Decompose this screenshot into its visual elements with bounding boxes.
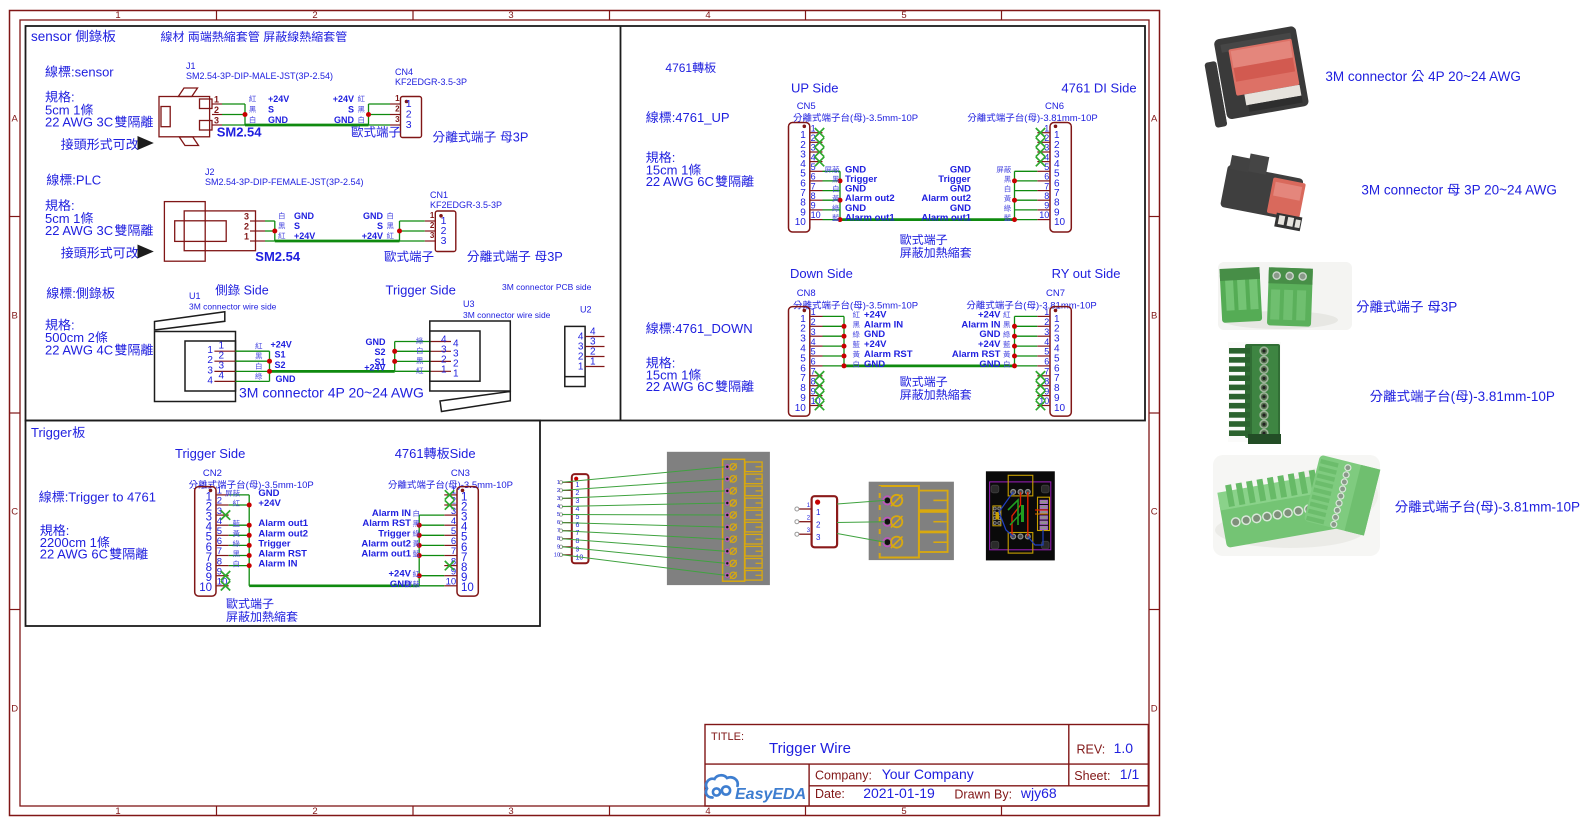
svg-text:)-3.81mm-10P: )-3.81mm-10P bbox=[1469, 389, 1555, 404]
svg-text::sensor: :sensor bbox=[71, 64, 114, 79]
no-connect marks CN6 pins 1-4 bbox=[1036, 128, 1045, 166]
svg-text:2: 2 bbox=[312, 10, 317, 21]
svg-text:SM2.54-3P-DIP-FEMALE-JST(3P-2.: SM2.54-3P-DIP-FEMALE-JST(3P-2.54) bbox=[205, 177, 364, 187]
svg-text:SM2.54-3P-DIP-MALE-JST(3P-2.54: SM2.54-3P-DIP-MALE-JST(3P-2.54) bbox=[186, 71, 333, 81]
label celu Side bbox=[215, 284, 268, 298]
svg-text:Side: Side bbox=[240, 284, 269, 298]
svg-text:3M connector: 3M connector bbox=[1325, 69, 1411, 84]
svg-text::PLC: :PLC bbox=[72, 173, 101, 188]
gray footprint image 10P bbox=[667, 452, 770, 585]
svg-text:4761 DI Side: 4761 DI Side bbox=[1061, 81, 1136, 96]
svg-text:6: 6 bbox=[811, 357, 816, 367]
svg-text:10: 10 bbox=[795, 403, 807, 414]
no-connect marks CN8 pins 7-10 bbox=[815, 371, 824, 410]
svg-text:3M connector wire side: 3M connector wire side bbox=[463, 310, 551, 320]
svg-text:CN2: CN2 bbox=[203, 468, 222, 479]
svg-text:2: 2 bbox=[395, 105, 400, 114]
junction J2 side bbox=[272, 229, 277, 234]
svg-text:1: 1 bbox=[590, 357, 596, 368]
svg-text:9: 9 bbox=[1044, 201, 1049, 211]
svg-text:4761: 4761 bbox=[665, 61, 692, 75]
wire labels CN5 side bbox=[825, 164, 896, 223]
svg-text:S: S bbox=[348, 105, 354, 115]
connector U3 designator bbox=[463, 299, 551, 320]
caption terminal 10P tall bbox=[1370, 389, 1555, 404]
wire color labels CN1 side bbox=[362, 211, 394, 241]
svg-text:+24V: +24V bbox=[333, 94, 354, 104]
svg-text:1: 1 bbox=[244, 232, 249, 242]
svg-text:3: 3 bbox=[430, 231, 435, 240]
label RY out Side bbox=[1052, 266, 1121, 281]
svg-text:4761: 4761 bbox=[395, 446, 424, 461]
svg-text:3M connector wire side: 3M connector wire side bbox=[189, 302, 277, 312]
svg-text:8: 8 bbox=[1044, 191, 1049, 201]
junction U1 side S1 bbox=[267, 359, 272, 364]
svg-text:(: ( bbox=[1024, 113, 1028, 124]
svg-text:7: 7 bbox=[811, 181, 816, 191]
junctions CN7 bus bbox=[1012, 324, 1017, 369]
svg-text:8: 8 bbox=[576, 538, 580, 545]
connector CN6 designator bbox=[968, 101, 1098, 124]
label SM2.54 row1 bbox=[217, 125, 263, 140]
svg-text:(: ( bbox=[1451, 389, 1456, 404]
wire U1 to U3 cable bbox=[235, 342, 431, 382]
svg-text:22 AWG 4C: 22 AWG 4C bbox=[45, 343, 113, 358]
svg-text:1: 1 bbox=[453, 368, 459, 379]
svg-text:3M connector PCB side: 3M connector PCB side bbox=[502, 282, 592, 292]
svg-text:2: 2 bbox=[1044, 317, 1049, 327]
svg-text:Sheet:: Sheet: bbox=[1074, 769, 1110, 783]
svg-text:5: 5 bbox=[557, 512, 560, 518]
svg-text:UP Side: UP Side bbox=[791, 81, 838, 96]
label wire name Trigger to 4761 bbox=[39, 490, 156, 505]
svg-text:1: 1 bbox=[807, 503, 811, 509]
svg-text:2021-01-19: 2021-01-19 bbox=[863, 785, 935, 801]
svg-text:3P: 3P bbox=[513, 130, 529, 145]
label wire name PLC bbox=[47, 173, 101, 188]
svg-text:1: 1 bbox=[430, 211, 435, 220]
svg-text:J1: J1 bbox=[186, 61, 196, 71]
svg-text:2: 2 bbox=[214, 105, 219, 115]
label Trigger board title bbox=[31, 425, 85, 440]
svg-text:+24V: +24V bbox=[271, 340, 292, 350]
svg-text:A: A bbox=[12, 114, 19, 125]
connector CN7 symbol bbox=[1037, 307, 1071, 417]
svg-text:GND: GND bbox=[294, 211, 315, 221]
svg-text:2: 2 bbox=[244, 222, 249, 232]
svg-text:Side: Side bbox=[450, 446, 476, 461]
connector U2 symbol bbox=[565, 326, 605, 386]
svg-text:1.0: 1.0 bbox=[1114, 740, 1134, 756]
connector CN8 designator bbox=[793, 288, 918, 312]
label 4761 DI Side bbox=[1061, 81, 1136, 96]
label 3M connector 4P bbox=[239, 385, 424, 401]
label connector-changeable note row1 bbox=[61, 136, 154, 150]
no-connect marks CN7 pins 7-10 bbox=[1036, 371, 1045, 410]
svg-text:1: 1 bbox=[811, 307, 816, 317]
label spec row2 bbox=[45, 198, 153, 238]
label euro terminal UP bbox=[900, 234, 971, 258]
caption terminal 10P pair bbox=[1395, 500, 1580, 515]
connector CN4 symbol bbox=[390, 94, 422, 138]
junction CN1 side bbox=[397, 229, 402, 234]
svg-text:SM2.54: SM2.54 bbox=[255, 249, 301, 264]
svg-text:Trigger Side: Trigger Side bbox=[386, 283, 456, 298]
connector CN7 designator bbox=[967, 288, 1097, 312]
svg-text:10: 10 bbox=[1054, 403, 1066, 414]
svg-text:TITLE:: TITLE: bbox=[711, 731, 744, 743]
svg-text:10: 10 bbox=[554, 552, 560, 558]
svg-text:6: 6 bbox=[1044, 172, 1049, 182]
svg-text:D: D bbox=[1151, 704, 1158, 715]
wire color labels J2 side bbox=[278, 211, 315, 241]
svg-text:)-3.81mm-10P: )-3.81mm-10P bbox=[1494, 500, 1580, 515]
label spec row3 bbox=[45, 318, 153, 358]
svg-text:4: 4 bbox=[576, 506, 580, 513]
svg-text:10: 10 bbox=[1054, 217, 1066, 228]
Trigger board section box bbox=[26, 421, 541, 627]
junction U1 side S2 bbox=[267, 369, 272, 374]
svg-text:6: 6 bbox=[557, 520, 560, 526]
svg-text:3: 3 bbox=[807, 528, 811, 534]
svg-text:4: 4 bbox=[219, 371, 225, 382]
label euro terminal DOWN bbox=[900, 376, 971, 400]
svg-text:22 AWG 3C: 22 AWG 3C bbox=[45, 115, 113, 130]
svg-text:CN3: CN3 bbox=[451, 468, 470, 479]
svg-text:5: 5 bbox=[811, 347, 816, 357]
svg-text:5: 5 bbox=[1044, 162, 1049, 172]
no-connect marks CN2 pins 3 9 10 bbox=[221, 510, 230, 590]
label Trigger Side row3 bbox=[386, 283, 456, 298]
svg-text:Alarm out1: Alarm out1 bbox=[361, 549, 411, 560]
svg-text:2: 2 bbox=[557, 488, 560, 494]
svg-text:U1: U1 bbox=[189, 291, 201, 301]
svg-text:S: S bbox=[377, 221, 383, 231]
label wire name 4761_UP bbox=[646, 110, 729, 125]
connector U3 symbol bbox=[430, 321, 511, 412]
connector CN8 symbol bbox=[789, 307, 823, 417]
connector U1 designator bbox=[189, 291, 277, 312]
svg-text:U3: U3 bbox=[463, 299, 475, 309]
svg-text:4: 4 bbox=[207, 375, 213, 386]
svg-text:2: 2 bbox=[312, 806, 317, 817]
svg-text:7: 7 bbox=[557, 528, 560, 534]
svg-text:+24V: +24V bbox=[294, 231, 315, 241]
photo terminal 10P pair bbox=[1213, 455, 1380, 556]
svg-text:CN8: CN8 bbox=[797, 288, 816, 299]
svg-text:2: 2 bbox=[430, 221, 435, 230]
wire CN8 to CN7 cable DOWN bbox=[823, 316, 1038, 366]
svg-text:RY out Side: RY out Side bbox=[1052, 266, 1121, 281]
svg-text:GND: GND bbox=[334, 115, 355, 125]
svg-text:5: 5 bbox=[1044, 347, 1049, 357]
svg-text:3P 20~24 AWG: 3P 20~24 AWG bbox=[1460, 183, 1556, 198]
svg-text:2: 2 bbox=[811, 317, 816, 327]
svg-text:3M connector: 3M connector bbox=[1361, 183, 1447, 198]
svg-text:2: 2 bbox=[807, 516, 811, 522]
label euro terminal trigger bbox=[226, 598, 297, 622]
junctions CN8 bus bbox=[842, 324, 847, 369]
svg-text:9: 9 bbox=[811, 201, 816, 211]
caption terminal 3P bbox=[1356, 300, 1457, 315]
svg-text:4: 4 bbox=[811, 337, 816, 347]
svg-text:2: 2 bbox=[576, 490, 580, 497]
svg-text:B: B bbox=[12, 311, 18, 322]
svg-text:7: 7 bbox=[1044, 181, 1049, 191]
svg-text:KF2EDGR-3.5-3P: KF2EDGR-3.5-3P bbox=[430, 200, 502, 210]
svg-text:Trigger Wire: Trigger Wire bbox=[769, 740, 851, 757]
svg-text:(: ( bbox=[850, 301, 854, 312]
label UP Side bbox=[791, 81, 838, 96]
svg-text:5: 5 bbox=[901, 10, 906, 21]
svg-text:10: 10 bbox=[461, 582, 474, 594]
4761 adapter section divider bbox=[620, 26, 622, 421]
svg-text:1: 1 bbox=[578, 362, 584, 373]
svg-text:CN1: CN1 bbox=[430, 190, 448, 200]
label wire name sensor bbox=[45, 64, 114, 79]
photo terminal 3P pair bbox=[1218, 262, 1352, 330]
connector CN6 symbol bbox=[1037, 123, 1071, 233]
svg-text:1/1: 1/1 bbox=[1120, 766, 1140, 782]
svg-text:(: ( bbox=[1023, 301, 1027, 312]
svg-text:B: B bbox=[1151, 311, 1157, 322]
svg-text:EasyEDA: EasyEDA bbox=[735, 786, 806, 803]
label 4761 adapter Side bbox=[395, 446, 476, 461]
gray footprint image 3P bbox=[869, 482, 954, 560]
svg-text:sensor: sensor bbox=[31, 29, 75, 44]
svg-text:1: 1 bbox=[214, 95, 219, 105]
svg-text:S: S bbox=[294, 221, 300, 231]
svg-text:+24V: +24V bbox=[364, 362, 385, 372]
junctions CN5 bus bbox=[838, 178, 843, 222]
svg-text::Trigger to 4761: :Trigger to 4761 bbox=[65, 490, 156, 505]
svg-text:3: 3 bbox=[244, 212, 249, 222]
svg-text:GND: GND bbox=[864, 359, 885, 370]
mini connector 10P symbol bbox=[554, 474, 589, 563]
connector J1 designator bbox=[186, 61, 333, 81]
svg-text:REV:: REV: bbox=[1077, 743, 1106, 757]
wire labels CN7 side bbox=[952, 309, 1010, 370]
junction CN4 side bbox=[366, 112, 371, 117]
svg-text:C: C bbox=[1151, 507, 1158, 518]
svg-text:)-3.5mm-10P: )-3.5mm-10P bbox=[458, 480, 513, 491]
connector U1 symbol bbox=[155, 312, 236, 402]
caption 3M connector male 4P bbox=[1325, 69, 1520, 84]
junctions CN2 bus bbox=[247, 503, 252, 569]
connector J2 symbol bbox=[164, 202, 265, 262]
svg-text:S1: S1 bbox=[275, 350, 286, 360]
svg-text:GND: GND bbox=[363, 211, 384, 221]
svg-text:1: 1 bbox=[395, 94, 400, 103]
wire labels CN6 side bbox=[921, 164, 1011, 223]
svg-text:+24V: +24V bbox=[362, 231, 383, 241]
svg-text:4: 4 bbox=[1044, 337, 1049, 347]
svg-text:)-3.5mm-10P: )-3.5mm-10P bbox=[863, 113, 918, 124]
svg-text:Down Side: Down Side bbox=[790, 266, 853, 281]
label wire name celu board bbox=[47, 286, 115, 301]
svg-text:4: 4 bbox=[705, 806, 710, 817]
label connector-changeable note row2 bbox=[61, 245, 154, 259]
svg-text:3: 3 bbox=[811, 327, 816, 337]
svg-text:KF2EDGR-3.5-3P: KF2EDGR-3.5-3P bbox=[395, 77, 467, 87]
svg-text:(: ( bbox=[1476, 500, 1481, 515]
sheet border frame bbox=[10, 10, 1160, 817]
connector CN5 symbol bbox=[789, 123, 823, 233]
svg-text:3: 3 bbox=[508, 10, 513, 21]
svg-text:22 AWG 6C: 22 AWG 6C bbox=[646, 174, 714, 189]
title block frame bbox=[705, 725, 1148, 807]
svg-text:3: 3 bbox=[1044, 327, 1049, 337]
svg-text:1: 1 bbox=[115, 10, 120, 21]
svg-text:1: 1 bbox=[557, 480, 560, 486]
junction U3 side S1 bbox=[392, 359, 397, 364]
label 3M connector PCB side bbox=[502, 282, 592, 292]
PCB preview image bbox=[986, 471, 1055, 560]
svg-text:C: C bbox=[11, 507, 18, 518]
svg-text:4: 4 bbox=[557, 504, 560, 510]
svg-text:4P 20~24 AWG: 4P 20~24 AWG bbox=[1424, 69, 1520, 84]
wire color labels U3 side bbox=[364, 337, 423, 374]
svg-text:3: 3 bbox=[557, 496, 560, 502]
svg-text:S: S bbox=[268, 105, 274, 115]
label Euro terminal row1 bbox=[352, 126, 401, 138]
svg-text:3M connector 4P 20~24 AWG: 3M connector 4P 20~24 AWG bbox=[239, 385, 424, 401]
svg-text:3P: 3P bbox=[1441, 300, 1458, 315]
svg-text:U2: U2 bbox=[580, 305, 592, 315]
svg-text:3P: 3P bbox=[547, 249, 563, 264]
svg-text:1: 1 bbox=[576, 482, 580, 489]
svg-text:A: A bbox=[1151, 114, 1158, 125]
svg-text:2: 2 bbox=[816, 521, 821, 530]
connector CN3 symbol bbox=[444, 486, 478, 596]
connector CN1 designator bbox=[430, 190, 502, 210]
connector CN1 symbol bbox=[425, 211, 456, 252]
svg-text:10: 10 bbox=[1039, 210, 1049, 220]
svg-text:6: 6 bbox=[1044, 357, 1049, 367]
label SM2.54 row2 bbox=[255, 249, 301, 264]
no-connect marks CN5 pins 1-4 bbox=[815, 128, 824, 166]
connector U2 designator bbox=[580, 305, 592, 315]
wires mini connector to footprint 10P bbox=[562, 467, 725, 576]
label spec 4761_DOWN bbox=[646, 356, 754, 395]
svg-text:22 AWG 3C: 22 AWG 3C bbox=[45, 223, 113, 238]
svg-text:(: ( bbox=[445, 480, 449, 491]
svg-text::4761_UP: :4761_UP bbox=[672, 110, 730, 125]
svg-text:1: 1 bbox=[1044, 307, 1049, 317]
svg-text:10: 10 bbox=[795, 217, 807, 228]
svg-text:S2: S2 bbox=[375, 347, 386, 357]
svg-text:Company:: Company: bbox=[815, 769, 872, 783]
wire labels CN2 side bbox=[225, 488, 309, 570]
svg-text:8: 8 bbox=[811, 191, 816, 201]
svg-text:Trigger Side: Trigger Side bbox=[175, 446, 245, 461]
connector CN5 designator bbox=[793, 101, 918, 124]
svg-text:(: ( bbox=[850, 113, 854, 124]
wire J2 to CN1 cable bbox=[265, 221, 425, 241]
label wire name 4761_DOWN bbox=[646, 321, 752, 336]
title block texts bbox=[711, 731, 1139, 802]
svg-text:GND: GND bbox=[390, 579, 411, 590]
svg-text:Alarm IN: Alarm IN bbox=[258, 559, 297, 570]
svg-text:4: 4 bbox=[705, 10, 710, 21]
svg-text:8: 8 bbox=[557, 536, 560, 542]
wire color labels U1 side bbox=[255, 340, 296, 384]
wire J1 to CN4 cable bbox=[222, 104, 390, 125]
svg-text:Drawn By:: Drawn By: bbox=[954, 788, 1012, 802]
label sensor section title bbox=[31, 29, 115, 44]
caption 3M connector female 3P bbox=[1361, 183, 1556, 198]
label Down Side bbox=[790, 266, 853, 281]
mini connector 3P symbol bbox=[795, 496, 837, 547]
EasyEDA logo bbox=[706, 775, 806, 803]
svg-text:GND: GND bbox=[276, 374, 297, 384]
connector CN3 designator bbox=[388, 468, 513, 491]
svg-text:6: 6 bbox=[811, 172, 816, 182]
svg-text:1: 1 bbox=[816, 508, 821, 517]
wires mini connector to footprint 3P bbox=[837, 500, 885, 542]
svg-text:5: 5 bbox=[901, 806, 906, 817]
label spec 4761_UP bbox=[646, 150, 754, 189]
svg-text:CN7: CN7 bbox=[1046, 288, 1065, 299]
junctions CN3 bus bbox=[417, 523, 422, 579]
svg-text:10: 10 bbox=[811, 210, 821, 220]
svg-text:Alarm out1: Alarm out1 bbox=[921, 213, 971, 224]
svg-text:CN4: CN4 bbox=[395, 67, 413, 77]
svg-text:3: 3 bbox=[406, 119, 412, 131]
connector J1 symbol bbox=[159, 88, 222, 146]
svg-text:Date:: Date: bbox=[815, 787, 845, 801]
svg-text:CN6: CN6 bbox=[1045, 101, 1064, 112]
svg-text:3: 3 bbox=[441, 235, 447, 247]
sensor board section box bbox=[26, 26, 1146, 421]
svg-text:+24V: +24V bbox=[268, 94, 289, 104]
svg-text:1: 1 bbox=[441, 364, 447, 375]
svg-text:5: 5 bbox=[811, 162, 816, 172]
svg-text:GND: GND bbox=[979, 359, 1000, 370]
wire labels CN3 side bbox=[361, 508, 419, 590]
wire color labels J1 side bbox=[249, 94, 289, 125]
svg-text:9: 9 bbox=[576, 546, 580, 553]
label spec trigger bbox=[40, 523, 148, 562]
svg-text::: : bbox=[72, 286, 76, 301]
svg-text:wjy68: wjy68 bbox=[1020, 785, 1057, 801]
svg-text:3: 3 bbox=[576, 498, 580, 505]
photo terminal 10P tall bbox=[1228, 342, 1281, 444]
label Euro terminal row2 bbox=[385, 250, 434, 262]
svg-text:GND: GND bbox=[366, 337, 387, 347]
svg-text:D: D bbox=[11, 704, 18, 715]
svg-text:CN5: CN5 bbox=[797, 101, 816, 112]
connector CN2 designator bbox=[189, 468, 314, 491]
svg-text:J2: J2 bbox=[205, 167, 215, 177]
photo 3M connector female 3P bbox=[1218, 150, 1312, 232]
label pluggable terminal row1 bbox=[433, 130, 529, 145]
label cable note bbox=[161, 30, 347, 44]
wire CN2 to CN3 cable bbox=[229, 495, 445, 586]
wire labels CN8 side bbox=[853, 309, 913, 370]
svg-text:10: 10 bbox=[446, 577, 457, 588]
svg-text:(: ( bbox=[246, 480, 250, 491]
label spec row1 bbox=[45, 90, 153, 130]
svg-text:S2: S2 bbox=[275, 360, 286, 370]
svg-text:3: 3 bbox=[816, 533, 821, 542]
svg-text:22 AWG 6C: 22 AWG 6C bbox=[40, 547, 108, 562]
svg-text:+24V: +24V bbox=[258, 498, 281, 509]
svg-text:Alarm out1: Alarm out1 bbox=[845, 213, 895, 224]
photo 3M connector male 4P bbox=[1201, 26, 1311, 128]
svg-text:Your Company: Your Company bbox=[882, 766, 974, 782]
junctions CN6 bus bbox=[1012, 178, 1017, 222]
